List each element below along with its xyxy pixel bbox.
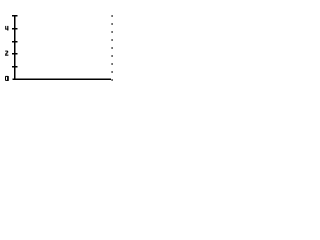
y-axis top tick (value 5) [12,15,18,16]
y-axis line [14,15,15,80]
y-axis tick (value 4) [12,28,18,29]
y-axis tick (value 1) [12,66,18,67]
dotted vertical line at right (9 dots, spacing 8) [111,15,112,80]
y-axis tick (value 3) [12,41,18,42]
y-axis label 0 [5,76,9,81]
y-axis label 2 [5,51,8,56]
y-axis tick (value 2) [12,53,18,54]
x-axis line (includes left tick stub at value 0) [13,78,111,80]
y-axis label 4 [5,26,8,31]
